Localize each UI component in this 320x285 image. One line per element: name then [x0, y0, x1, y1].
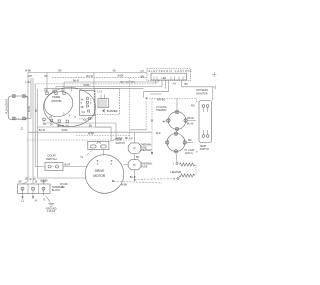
svg-text:MONITOR: MONITOR: [196, 93, 208, 96]
svg-text:RD: RD: [191, 104, 195, 107]
timer bottom terminal 3: [58, 120, 60, 122]
svg-text:2 PLCS: 2 PLCS: [47, 210, 56, 213]
sensor inner ticks: [203, 107, 207, 134]
heater fold: [195, 165, 197, 175]
svg-text:W-BK: W-BK: [62, 129, 69, 132]
control bottom-left drop: [180, 81, 182, 87]
wire top run 3: [35, 83, 155, 85]
svg-text:WH: WH: [140, 75, 144, 78]
buzzer pins: [101, 95, 105, 99]
arrow terminal: [151, 152, 153, 155]
electronic control inner board: [151, 73, 187, 80]
svg-text:L1: L1: [21, 198, 24, 202]
cord stubs: [23, 190, 44, 196]
cycling left terminal: [163, 121, 165, 123]
svg-text:W-R: W-R: [156, 132, 161, 135]
sensor box U1: [199, 101, 212, 143]
left bundle wire N: [32, 78, 34, 184]
wire run B: [130, 129, 146, 131]
svg-text:BK: BK: [25, 176, 28, 180]
dashed run y135.5: [76, 135, 130, 137]
svg-text:L-BU: L-BU: [26, 81, 32, 84]
fuse feed from run A: [134, 132, 136, 143]
cycling right stub: [187, 120, 196, 122]
svg-text:WH-BU: WH-BU: [157, 98, 165, 101]
wire run 5: [56, 86, 162, 88]
inner board ticks: [154, 77, 183, 81]
svg-text:MOTOR: MOTOR: [52, 99, 62, 103]
heater element lower: [179, 174, 195, 177]
sensor terminals bottom: [202, 135, 205, 138]
wire run y126.5: [38, 126, 112, 128]
svg-text:GY: GY: [141, 70, 145, 73]
control drop wires: [156, 80, 169, 92]
svg-text:N: N: [35, 198, 37, 202]
hi-limit to heater wire: [176, 153, 177, 163]
fuse link: [134, 154, 136, 160]
cycling top feed: [176, 98, 178, 110]
cycling to hi-limit link: [176, 131, 178, 134]
svg-text:1A: 1A: [50, 124, 53, 127]
svg-text:W-BK: W-BK: [118, 75, 125, 78]
wire top run 1: [28, 72, 147, 74]
svg-text:BLOCK: BLOCK: [52, 189, 61, 192]
heater terminal bottom: [177, 177, 179, 179]
svg-text:6A: 6A: [81, 99, 84, 102]
left bundle wire door feed: [35, 84, 45, 167]
svg-text:HEATER: HEATER: [171, 170, 182, 174]
wire run 4: [64, 81, 159, 83]
heater element R1: [179, 163, 195, 166]
svg-text:THERMO.: THERMO.: [156, 109, 167, 112]
fuse bottom link: [134, 170, 136, 180]
svg-text:BU: BU: [89, 124, 93, 127]
svg-text:RD-W: RD-W: [187, 117, 194, 120]
svg-text:BU: BU: [35, 108, 38, 112]
svg-text:BU-R: BU-R: [130, 176, 136, 179]
wire run y123: [46, 122, 117, 124]
wire top run 2: [52, 77, 147, 79]
svg-text:DRIVE: DRIVE: [95, 169, 105, 173]
ground feed stub: [43, 179, 45, 184]
svg-text:W-BK: W-BK: [121, 183, 128, 186]
svg-text:TIMER: TIMER: [52, 95, 60, 99]
svg-text:RD: RD: [188, 139, 192, 142]
dashed drop left: [145, 98, 147, 129]
svg-text:(HEATER): (HEATER): [140, 149, 151, 152]
motor right terminal: [112, 180, 114, 182]
switch bottom link: [25, 118, 31, 120]
svg-text:BU-W: BU-W: [187, 123, 194, 126]
svg-text:1 2 3: 1 2 3: [97, 90, 103, 93]
left bundle wire to run A: [31, 78, 38, 133]
timer bottom terminal 4: [66, 120, 68, 122]
buzzer left step wire: [96, 115, 112, 141]
svg-text:BU: BU: [121, 81, 125, 84]
motor switch box S3: [88, 141, 109, 149]
svg-text:(240 V): (240 V): [185, 152, 193, 155]
svg-text:BUZZER: BUZZER: [107, 109, 118, 113]
svg-text:BU-W: BU-W: [87, 75, 94, 78]
svg-text:BU-W: BU-W: [58, 125, 65, 128]
svg-text:SWITCH: SWITCH: [46, 157, 57, 161]
dashed drop mid: [151, 98, 153, 151]
junction node: [146, 97, 148, 99]
svg-text:WH: WH: [131, 81, 135, 84]
motor inner terminals: [97, 160, 99, 162]
left bundle wire L1: [23, 72, 29, 184]
svg-text:PUSH-START: PUSH-START: [6, 98, 9, 114]
svg-text:2A: 2A: [61, 89, 64, 92]
thermal fuse F1: [128, 143, 141, 154]
svg-text:TM: TM: [43, 123, 46, 126]
push-to-start switch S1: [8, 96, 28, 120]
timer contact box: [80, 91, 96, 116]
svg-text:1A: 1A: [49, 116, 52, 119]
wire run A: [28, 131, 152, 133]
timer body T1: [44, 88, 96, 127]
svg-text:BK: BK: [59, 70, 63, 73]
timer top terminal C: [63, 92, 65, 94]
svg-text:SWITCH: SWITCH: [200, 148, 210, 151]
svg-text:W-BK: W-BK: [25, 69, 32, 72]
svg-text:BK: BK: [125, 137, 129, 140]
svg-text:W-BK: W-BK: [84, 84, 91, 87]
svg-text:W-BK: W-BK: [88, 133, 95, 136]
electronic control dashed box: [147, 69, 191, 81]
corner tick: [212, 72, 217, 90]
svg-text:SWITCH: SWITCH: [116, 142, 126, 145]
timer top terminal A: [46, 92, 48, 94]
svg-text:BK: BK: [136, 156, 140, 159]
heater terminal top: [176, 162, 178, 164]
wire to sensor: [181, 87, 212, 101]
ground: [46, 196, 55, 207]
short run: [150, 93, 162, 95]
svg-text:BK: BK: [185, 83, 189, 86]
timer top stubs: [47, 73, 72, 93]
timer top terminal B: [55, 92, 57, 94]
svg-text:BK-R: BK-R: [73, 80, 79, 83]
timer bottom stubs: [44, 121, 67, 124]
svg-text:W-BK: W-BK: [28, 105, 31, 112]
timer motor M1: [41, 88, 76, 121]
svg-text:FUSE: FUSE: [141, 165, 148, 168]
switch top link: [25, 95, 28, 97]
svg-text:LED: LED: [162, 77, 167, 80]
svg-text:BK: BK: [62, 186, 66, 189]
dashed run to sensor: [147, 98, 200, 102]
hi-limit thermostat TH2: [167, 134, 185, 152]
buzzer feed drop: [93, 73, 95, 89]
sensor terminals top: [202, 105, 205, 108]
svg-text:MOTOR: MOTOR: [93, 174, 106, 178]
svg-text:GY: GY: [126, 81, 130, 84]
svg-text:BU-R: BU-R: [65, 164, 71, 167]
thermal fuse F2: [128, 160, 141, 170]
heater return wire: [135, 178, 177, 181]
bridge wire: [144, 92, 169, 98]
left bundle wire motor feed: [38, 132, 87, 178]
svg-text:1B: 1B: [52, 89, 55, 92]
motor switch feed: [110, 123, 116, 141]
door switch output: [63, 166, 88, 168]
buzzer speaker glyph: [102, 109, 104, 113]
timer to console dashed wire: [79, 118, 94, 120]
timer bottom terminal 2: [50, 119, 52, 121]
cycling thermostat TH1: [168, 112, 186, 130]
svg-text:BU-W: BU-W: [39, 129, 46, 132]
cord arrowheads: [21, 196, 34, 199]
svg-text:G: G: [43, 197, 45, 201]
svg-text:BK: BK: [45, 75, 49, 78]
wire run 6: [44, 88, 144, 90]
svg-text:4B: 4B: [113, 70, 116, 73]
motor auxiliary wire: [114, 181, 163, 183]
buzzer enclosure: [94, 89, 119, 115]
drive motor M2: [85, 155, 124, 194]
svg-text:4B: 4B: [81, 106, 84, 109]
terminal block TB1: [18, 184, 51, 194]
console dashed boundary: [27, 78, 130, 140]
svg-text:BK: BK: [19, 180, 23, 183]
motor to fuse link: [124, 163, 129, 165]
hi-limit right stub: [187, 142, 193, 144]
svg-text:ELECTRONIC CONTROL: ELECTRONIC CONTROL: [149, 70, 193, 73]
switch to motor links: [86, 150, 94, 156]
timer bottom terminal 1: [43, 118, 45, 120]
svg-text:WH: WH: [28, 75, 32, 78]
buzzer BZ1: [98, 99, 109, 108]
